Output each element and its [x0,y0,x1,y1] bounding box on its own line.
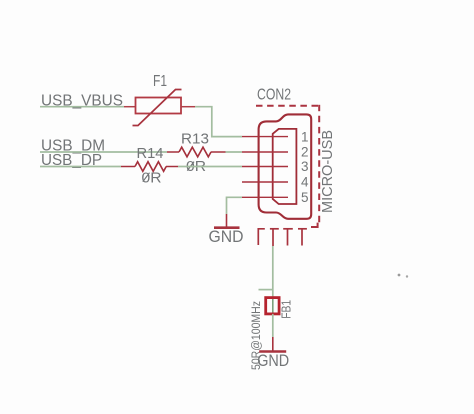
svg-text:MICRO-USB: MICRO-USB [319,130,336,213]
net label USB_DP [41,152,102,169]
label CON2 [257,87,291,104]
wire stub junction [259,289,273,291]
shield pin d [298,229,307,246]
svg-text:3: 3 [301,159,309,174]
value 50R@100MHz of FB1 [251,301,263,370]
connector CON2 inner tongue [273,129,297,204]
pin number 4 [301,175,309,190]
shield pin a [258,229,265,245]
pin 3 lead [242,166,288,168]
pin 5 lead [242,196,288,198]
wire USB_VBUS to F1 [40,106,136,108]
connector CON2 dashed boundary [256,105,320,227]
wire shield to FB1 [272,246,274,298]
svg-text:1: 1 [301,129,309,144]
value 0R of R14 [142,170,162,186]
shield pin b [270,229,279,246]
svg-text:4: 4 [301,175,309,190]
resistor R13 [167,147,226,157]
svg-text:CON2: CON2 [257,87,291,104]
label FB1 [279,300,293,319]
pin number 2 [301,145,309,160]
wire USB_DM to R13 [40,151,167,153]
svg-text:FB1: FB1 [279,300,293,319]
ground GND (left) [209,214,244,246]
svg-text:R14: R14 [137,146,164,162]
wire pin 5 to GND [227,197,243,214]
svg-text:5: 5 [301,190,309,205]
label R14 [137,146,164,162]
value 0R of R13 [186,159,206,175]
wire R13 to pin 2 [226,151,243,153]
wire F1 to pin 1 [181,107,242,137]
label F1 [153,73,167,90]
shield pin c [283,229,293,246]
speck marks [398,274,409,278]
wire USB_DP to R14 [40,166,121,168]
fuse F1 [133,90,182,126]
ferrite bead FB1 [266,298,279,314]
svg-text:2: 2 [301,145,309,160]
svg-text:F1: F1 [153,73,167,90]
pin number 5 [301,190,309,205]
pin 1 lead [242,136,288,138]
ground GND (bottom) [257,351,289,370]
label MICRO-USB [319,130,336,213]
wire R14 to pin 3 [178,166,242,168]
label R13 [181,131,209,147]
svg-text:GND: GND [209,227,244,246]
net label USB_DM [41,138,105,155]
pin number 1 [301,129,309,144]
connector CON2 outer shell [259,114,312,218]
pin number 3 [301,159,309,174]
wire FB1 to GND [272,314,274,352]
resistor R14 [121,162,178,172]
pin 2 lead [242,151,288,153]
svg-text:0R: 0R [142,170,162,186]
svg-text:R13: R13 [181,131,209,147]
pin 4 lead [242,181,288,183]
net label USB_VBUS [41,92,123,109]
svg-text:GND: GND [257,351,289,370]
